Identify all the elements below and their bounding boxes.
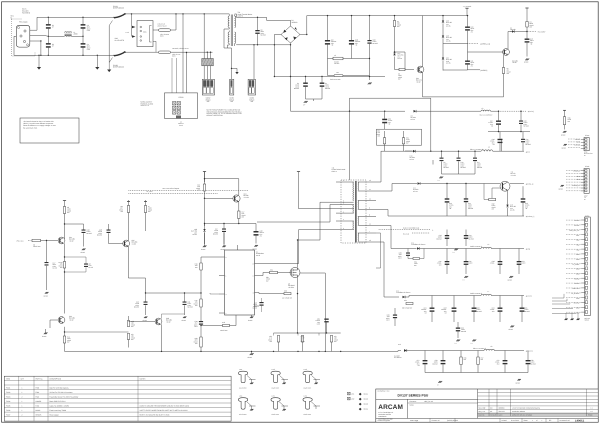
zener D03 [442, 36, 444, 38]
transformer T02 primary winding [352, 182, 355, 201]
wire T01 secondary bottom [236, 44, 290, 46]
mid rail y292 [146, 292, 202, 294]
resistor R21 [403, 131, 405, 138]
wire Q02 collector [507, 32, 509, 50]
wire Q05 emitter down [64, 243, 66, 261]
row E rail [412, 295, 481, 297]
net arrows NFB [128, 192, 218, 194]
resistor R33 [406, 302, 413, 304]
resistor R11 [128, 200, 130, 206]
switch common link [108, 26, 110, 63]
title block frame [376, 389, 598, 422]
wire T02 sec2 to row B [376, 184, 399, 192]
ground C20 [82, 249, 86, 251]
row A gnd rail [442, 173, 476, 175]
capacitor C23 [261, 298, 263, 302]
capacitor C24 [324, 319, 328, 320]
ground CON5 [563, 144, 567, 146]
ground C18b [254, 245, 258, 247]
resistor R1 [394, 16, 396, 21]
transistor Q05 stage1 [58, 237, 65, 244]
wire bridge plus to +unreg rail [300, 16, 468, 35]
inductor L4 [482, 150, 493, 151]
capacitor C17a [46, 241, 48, 263]
junction C4b [305, 76, 306, 77]
svg-text:ARCAM: ARCAM [378, 404, 403, 411]
wire R23 to U1 [259, 293, 284, 294]
rail 5V wires [381, 150, 413, 152]
transformer T01 primary winding 1 [228, 16, 229, 28]
row C rail [430, 215, 524, 217]
transformer T02 sec3 [357, 217, 360, 225]
junction R1 top [394, 15, 395, 16]
capacitor C15 [522, 132, 524, 139]
svg-text:CON1: CON1 [179, 96, 184, 99]
wire T01 secondary top stub [235, 16, 237, 17]
wire Q3 source down [297, 293, 299, 334]
inductor L3 [481, 110, 491, 111]
wire Q04 collector up [205, 179, 239, 195]
wire CON2 below ferrite [203, 66, 205, 80]
ground U1 cluster [250, 353, 254, 355]
resistor R20 [384, 131, 386, 138]
wire aux vertical into T02 [349, 111, 351, 180]
aux row rail [488, 131, 530, 133]
capacitor C aux [384, 111, 386, 119]
output rail 5V [376, 151, 381, 182]
power flag chopper2 [297, 171, 300, 173]
capacitor C40 [446, 184, 448, 199]
resistor R18 10R [201, 325, 223, 327]
connector CON6 [584, 169, 589, 194]
row E caps [431, 296, 433, 308]
row D caps [446, 249, 448, 262]
IEC mains inlet SK1 body [16, 25, 30, 47]
net PFC5 dashed [498, 110, 526, 112]
U1 ground [251, 315, 253, 317]
wire C1-C2 midpoint to L1 [48, 35, 64, 37]
connector CON2 [202, 79, 214, 95]
parts table grid [4, 376, 231, 421]
switch SW1A lever [114, 14, 125, 18]
wire Q3 drain up [297, 240, 299, 268]
sense top rail [274, 332, 341, 334]
transistor Q01 [417, 66, 424, 73]
resistor R9 [32, 239, 41, 241]
transformer T01 primary winding 2 [228, 32, 229, 44]
resistor R34 snubber [413, 258, 420, 260]
wire R5 bottom to left rail [480, 96, 504, 98]
ground C17b [223, 232, 225, 244]
transformer T01 secondary 1 [235, 16, 236, 28]
stage2 mid resistor R27b [127, 334, 129, 340]
junction T01 tap [231, 68, 232, 69]
bridge rectifier D1 [281, 26, 300, 43]
capacitor C2 [47, 29, 49, 43]
wire SW1A out rail [125, 13, 227, 15]
transformer T01 core [230, 15, 232, 47]
capacitor C33 snubber [407, 249, 409, 253]
svg-text:L906C1: L906C1 [575, 419, 585, 422]
svg-text:PART No.: PART No. [36, 377, 44, 380]
MOSFET Q3 [290, 268, 300, 278]
transformer T02 aux winding [352, 205, 355, 213]
junction T01 rail b [204, 13, 205, 14]
wire FS1 to T01 top rail [171, 14, 177, 30]
ground CON6 [560, 185, 564, 187]
svg-text:DESCRIPTION: DESCRIPTION [50, 377, 62, 380]
capacitor C10 [467, 16, 469, 27]
net label UNREG_C1 [468, 43, 479, 45]
U1 pin stubs left [219, 256, 225, 258]
power flag +V_UNREG [465, 7, 468, 9]
row B rail [430, 183, 500, 185]
controller U1 box [225, 250, 255, 315]
wire Q3 bottom row to D16 [398, 350, 401, 353]
resistor R24 gate [259, 273, 270, 276]
transformer T02 core [355, 181, 356, 243]
ferrite block on CON2 wires [202, 59, 214, 66]
junction aux cap [384, 111, 385, 112]
wire Q01 emitter down to rail [423, 72, 481, 97]
wire Q07 emitter [161, 324, 163, 351]
resistor R5 [503, 55, 505, 68]
resistor R22 sense [297, 277, 299, 293]
ground mains filter left [38, 55, 40, 67]
ground row D [464, 276, 468, 278]
zener D05 [442, 58, 444, 60]
ground row E c [510, 326, 514, 328]
junction C5b [321, 76, 322, 77]
capacitor C23a [199, 321, 203, 322]
connector CON3 [230, 79, 234, 95]
junction C08 top [351, 15, 352, 16]
capacitor C50 [441, 151, 443, 157]
junction bottom return a [273, 351, 274, 352]
capacitor C13a [108, 224, 110, 230]
capacitor C13b [520, 111, 522, 120]
ground row A [439, 177, 443, 179]
ground row C [454, 249, 458, 251]
fixing legend [348, 392, 351, 395]
wire bridge left corner to 0V [274, 35, 281, 77]
aux sub box [377, 129, 422, 145]
ground C22 [183, 317, 187, 319]
wire bridge bottom down [291, 43, 350, 111]
transformer T02 dashed box [341, 180, 366, 243]
ground R30 [563, 131, 567, 133]
wire C4b C5b join [306, 98, 323, 100]
U1 pin stubs right [255, 263, 260, 265]
wire sec to row E [376, 242, 399, 297]
link LK1 [327, 59, 329, 76]
wire Q01 collector up [422, 16, 424, 67]
wire drop to CON1 left [182, 14, 184, 93]
junction rail 5V [441, 151, 442, 152]
wire CON2 drop c [210, 52, 212, 58]
connector CON7 [585, 217, 591, 316]
resistor R2B [200, 337, 202, 347]
junction bottom rail gnd [38, 55, 39, 56]
T02 secondary pins [358, 181, 376, 183]
connector CON1 box [165, 93, 198, 119]
fuse FS2 [153, 41, 156, 52]
capacitor C4 [82, 29, 84, 43]
wire left earth stub [14, 35, 16, 37]
ground mains filter mid [96, 55, 98, 67]
capacitor C5b [321, 77, 323, 83]
reservoir capacitor C08 [351, 16, 353, 40]
ground C09 area [369, 77, 371, 81]
resistor R8 [63, 207, 65, 214]
filter choke L1 core [65, 33, 72, 35]
transistor Q07 [155, 318, 162, 325]
junction R1 D07 [394, 51, 395, 52]
capacitor C18b [255, 224, 257, 232]
resistor R26 [277, 336, 279, 343]
net S1_NFB arrows [412, 232, 430, 234]
grounds CON7 bottom [565, 319, 568, 321]
svg-text:FSD_Mash: FSD_Mash [19, 20, 28, 23]
ground C12 [525, 59, 529, 61]
stage2 mid resistors R28 [128, 316, 130, 321]
junction C10 zeners [443, 43, 468, 45]
CON7 bottom wires [552, 294, 564, 298]
inductor L7 [481, 294, 491, 295]
ground D08 [204, 232, 206, 244]
connector CON4 [248, 79, 255, 95]
net NFB to controller [378, 229, 430, 231]
wire earth pin down [30, 41, 41, 55]
zener D07 [394, 52, 396, 53]
capacitor C34 [394, 308, 396, 315]
wire CON2 drop a [203, 14, 205, 59]
junction top rail C3 [82, 17, 83, 18]
capacitor C09 [369, 16, 371, 40]
rail 5V out [493, 150, 524, 152]
transformer T02 sec2 [357, 201, 360, 209]
fuse FS1 [153, 29, 159, 31]
diode D14 [399, 248, 417, 250]
wire T01 primary tap to CON3 [224, 29, 232, 79]
capacitor C47 [498, 111, 500, 120]
ground switch common [107, 70, 111, 73]
transistor Q08 mid [123, 240, 130, 247]
svg-text:ITEM: ITEM [6, 377, 11, 380]
capacitor C44 [465, 230, 467, 236]
wire zener chain top [442, 16, 444, 21]
capacitor C43 [446, 230, 448, 236]
row D rail [430, 248, 481, 250]
junction L3 in [498, 111, 499, 112]
ground reservoir slashes [304, 101, 308, 103]
wire sec to row C [376, 210, 430, 217]
left column vertical [200, 257, 202, 263]
capacitor C48 [499, 132, 501, 139]
wire Q07 base [129, 321, 156, 323]
ground T01 tap [235, 72, 238, 74]
junction bottom rail C4 [82, 55, 83, 56]
zener D08 [204, 224, 206, 230]
net NFB from PSU outputs [128, 189, 248, 191]
transformer T02 sec1 [357, 182, 360, 190]
voltage selector box [137, 21, 153, 47]
filter choke L1 winding B [65, 35, 72, 38]
svg-text:R114K75%02WP: R114K75%02WP [119, 205, 123, 213]
capacitor C3 [82, 17, 84, 24]
wire SW1B out rail [125, 51, 212, 53]
capacitor C21 [145, 293, 147, 302]
wire T02 pin6 to U1 [259, 230, 336, 264]
wire secondary to bridge AC top [236, 17, 290, 26]
resistor R17 [238, 202, 240, 212]
ground above title block 2 [517, 379, 521, 381]
diode D15 [403, 296, 406, 299]
capacitor C11 [467, 44, 469, 61]
resistor R31 [432, 160, 434, 165]
ground C21 [144, 317, 148, 319]
diode D11 [399, 183, 417, 185]
resistor R10 [204, 172, 206, 185]
wire Q02 base [468, 51, 503, 53]
row F rail [420, 350, 484, 352]
junction C07 top [327, 15, 328, 16]
wire long bottom return [65, 350, 399, 352]
T02 primary pins [336, 181, 354, 183]
resistor R13 [63, 262, 65, 269]
capacitor C4b [305, 77, 307, 83]
ground above title block [438, 381, 442, 383]
transistor T04 reg [500, 181, 510, 191]
resistor R30 bleed [563, 109, 566, 111]
transformer T02 sec4 [357, 233, 360, 241]
wire T01 tap branch to gnd [232, 68, 238, 72]
junction C09 top [369, 15, 370, 16]
capacitor C51 [458, 151, 460, 157]
resistor R32 [492, 188, 500, 200]
diode D16 [404, 349, 407, 352]
inductor L6 [481, 247, 491, 248]
net label 5V_STBY [527, 31, 536, 33]
wire T02 aux to controller [257, 205, 336, 223]
ground row E b [472, 340, 476, 342]
resistor R27c [330, 336, 332, 343]
connector CON5 [584, 138, 589, 151]
capacitor C12 [526, 32, 528, 39]
wire CON2 drop b [206, 52, 208, 58]
capacitor C41 [465, 184, 467, 199]
junction 0V C09 [369, 76, 370, 77]
junction L2 right [369, 58, 370, 59]
capacitor C17b [223, 224, 225, 229]
U1 left pin wire [201, 256, 219, 258]
capacitor C1 [47, 17, 49, 24]
power flag stage1 [63, 200, 66, 202]
wire live pin to top rail [30, 17, 114, 30]
zener D02 [442, 21, 444, 23]
row F bottom rail [425, 372, 528, 374]
IEC mains inlet SK1 outline (dashed) [12, 19, 36, 56]
ground Q06 base [44, 333, 48, 335]
row F resistors [460, 357, 462, 365]
filter choke L1 winding A [65, 31, 72, 34]
wire R1 to Q01 base path [395, 52, 406, 70]
transformer T01 secondary 2 [235, 32, 236, 44]
junction 0V left [274, 76, 275, 77]
net label 5V0A [468, 69, 481, 71]
transistor Q04 driver [233, 195, 240, 202]
capacitor C18a [65, 257, 87, 264]
diode D4 [512, 30, 514, 32]
capacitor C42 [522, 186, 524, 198]
transistor Q02 [503, 49, 510, 56]
diode D10 row [405, 150, 413, 152]
wire Q05 collector junction [64, 237, 66, 240]
capacitor C52 [474, 151, 476, 157]
junction zener top [442, 15, 443, 16]
row F caps [424, 351, 426, 361]
switch SW1B lever [114, 52, 125, 56]
selector input contacts [132, 26, 136, 28]
resistor R4 [525, 7, 528, 9]
inductor L2 [328, 58, 370, 60]
capacitor C20 [82, 230, 86, 231]
junction bridge bottom [290, 76, 291, 77]
resistor R15 below U1 [200, 299, 202, 307]
resistor R25 current sense [301, 336, 303, 343]
PWM cluster rail [205, 223, 257, 225]
wire L1 out [72, 35, 83, 37]
wire Q05 collector to C20 [65, 224, 84, 230]
wire zener bottom join [443, 69, 468, 71]
wire Q06 base [50, 319, 58, 321]
svg-text:-▸: -▸ [432, 230, 434, 232]
wire Q04 base from R10 [205, 197, 233, 199]
row E lower cap [457, 322, 459, 328]
svg-text:DV137 SERIES PSU: DV137 SERIES PSU [398, 394, 429, 398]
wire sec3 to row D [376, 226, 399, 249]
inductor L8 [484, 349, 494, 350]
junction T01 rail a [182, 13, 183, 14]
transformer T02 aux2 winding [352, 221, 355, 229]
svg-text:NOTES: NOTES [140, 377, 147, 380]
capacitor C22 [184, 293, 186, 302]
resistor R12 [145, 200, 147, 206]
ground C17a [45, 292, 49, 294]
capacitor C6 across secondary [257, 17, 259, 30]
power flag chopper [203, 171, 206, 173]
U1 top stub [237, 245, 239, 250]
wire aux rail corner [350, 97, 431, 99]
wire Q3 tab down [300, 273, 325, 351]
resistor R1B [200, 263, 202, 270]
wire Q08 links [109, 243, 123, 245]
junction C10 top [467, 15, 468, 16]
wire T02 pin2 to Q3 drain [298, 202, 337, 240]
transistor Q06 stage2 [58, 317, 65, 324]
junction bottom rail C2 [48, 55, 49, 56]
capacitor C58 [501, 139, 503, 151]
junction CON2 rail [207, 52, 208, 53]
wire neutral pin [30, 34, 49, 37]
zener D13 [507, 191, 509, 205]
junction top rail C1 [48, 17, 49, 18]
diode D aux [414, 110, 417, 113]
resistor R2 [395, 69, 400, 71]
connector CON1 pins [173, 102, 176, 105]
0V rail [274, 76, 385, 78]
junction D4 R4 [526, 31, 527, 32]
